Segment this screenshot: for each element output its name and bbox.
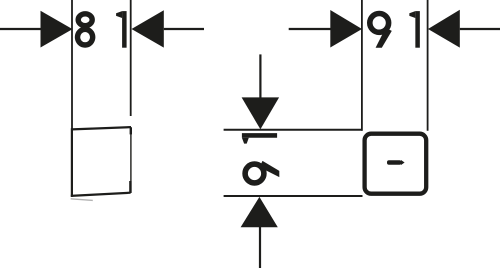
wire: left leader line of dim 91 horizontal	[289, 28, 331, 30]
wire: right leader line of dim 81	[164, 28, 204, 30]
wire: bottom leader line of dim 91 vertical	[259, 227, 261, 268]
node plate side view bottom edge	[71, 193, 131, 196]
node label 1 of dim 91 horizontal	[409, 11, 420, 48]
node plate side view left edge	[71, 128, 73, 197]
node label 9 (rotated) of dim 91 vertical	[245, 161, 279, 183]
wire: bottom extension line F (y=196)	[224, 195, 363, 197]
node plate side view bottom lip	[71, 199, 93, 201]
node plate side view right bottom tick	[129, 181, 131, 193]
node arrow-left of dim 91 horizontal	[428, 10, 460, 48]
wire: left leader line of dim 81	[0, 28, 41, 30]
wire: extension line A (x=72)	[71, 0, 73, 130]
wire: extension line D (x=427.6)	[427, 0, 429, 131]
node plate front view (rounded square)	[365, 134, 427, 194]
node plate side view right thin edge	[130, 127, 132, 193]
node button dash tip	[401, 160, 405, 165]
wire: right leader line of dim 91 horizontal	[460, 28, 500, 30]
node label 8 of dim 81	[78, 14, 93, 45]
wire: top leader line of dim 91 vertical	[259, 54, 261, 98]
node label 9 of dim 91 horizontal	[370, 14, 392, 48]
node plate side view right top tick	[130, 127, 132, 134]
node arrow-right of dim 81	[41, 11, 73, 48]
node arrow-left of dim 81	[132, 10, 164, 47]
node label 1 (rotated) of dim 91 vertical	[242, 133, 277, 144]
node arrow-up of dim 91 vertical	[241, 197, 278, 227]
wire: extension line C (x=361.9)	[361, 0, 363, 131]
node arrow-down of dim 91 vertical	[242, 97, 280, 129]
node plate side view top edge	[72, 127, 131, 129]
node label 1 of dim 81	[116, 11, 127, 48]
node button dash inside plate	[387, 160, 402, 165]
wire: top extension line E (y=129.7)	[224, 129, 363, 131]
wire: extension line B (x=130.7)	[130, 0, 132, 116]
node arrow-right of dim 91 horizontal	[330, 10, 362, 48]
